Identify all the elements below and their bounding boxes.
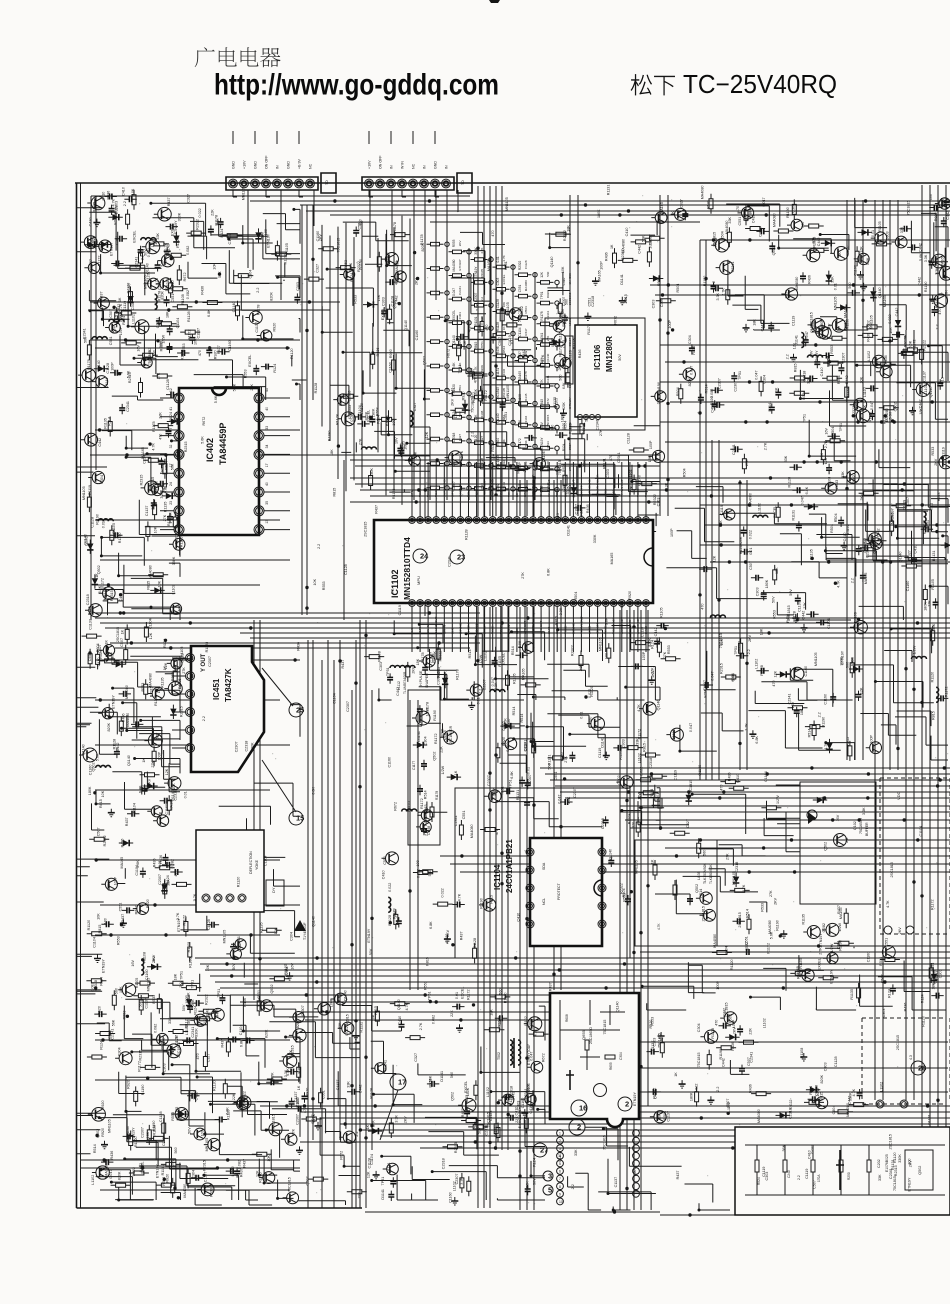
svg-text:0.082: 0.082 (91, 982, 95, 991)
svg-text:MA165: MA165 (610, 553, 614, 565)
svg-text:R2322: R2322 (518, 260, 522, 270)
svg-text:2.2: 2.2 (712, 281, 716, 286)
svg-text:170A: 170A (817, 1174, 821, 1182)
svg-text:R1120: R1120 (87, 920, 91, 931)
svg-text:C551: C551 (587, 298, 591, 307)
svg-text:R1178: R1178 (215, 215, 219, 226)
svg-text:ETN19Y: ETN19Y (102, 959, 106, 973)
svg-text:R1190: R1190 (924, 282, 928, 293)
svg-text:C442: C442 (522, 349, 526, 358)
svg-text:50V: 50V (171, 1159, 175, 1166)
svg-text:R437: R437 (524, 328, 528, 336)
svg-text:2KV: 2KV (934, 458, 938, 466)
svg-text:R1120: R1120 (474, 435, 478, 444)
svg-text:R1105: R1105 (178, 678, 182, 689)
svg-text:VIDEO DET: VIDEO DET (483, 480, 487, 497)
svg-text:DEFLECTION: DEFLECTION (249, 851, 253, 874)
svg-text:R672: R672 (541, 1053, 545, 1062)
svg-text:C303: C303 (660, 298, 664, 307)
svg-text:C1128: C1128 (207, 919, 211, 930)
svg-text:10K: 10K (101, 790, 105, 797)
svg-text:56K: 56K (719, 520, 723, 527)
svg-text:C1104: C1104 (264, 856, 268, 867)
svg-text:R1131: R1131 (516, 790, 520, 801)
svg-text:C410: C410 (89, 218, 93, 227)
svg-text:D1141: D1141 (105, 378, 109, 389)
svg-text:MA165: MA165 (518, 371, 522, 381)
svg-text:IN SOM: IN SOM (467, 623, 471, 634)
svg-text:12K: 12K (149, 632, 153, 639)
svg-text:EXCEL: EXCEL (502, 274, 506, 284)
svg-text:6.8K: 6.8K (444, 671, 448, 679)
svg-text:0.01: 0.01 (834, 283, 838, 290)
svg-text:H PULSE: H PULSE (419, 670, 423, 686)
svg-text:6.8K: 6.8K (562, 382, 566, 389)
svg-text:HSYNC: HSYNC (571, 622, 575, 634)
svg-text:10K: 10K (860, 376, 864, 383)
svg-text:R437: R437 (374, 505, 378, 514)
svg-text:R920: R920 (657, 277, 661, 286)
svg-text:C551: C551 (171, 294, 175, 303)
svg-text:Q1140: Q1140 (546, 353, 550, 362)
svg-text:R514: R514 (807, 729, 811, 738)
svg-text:Y OUT: Y OUT (201, 653, 207, 672)
svg-text:50V: 50V (789, 589, 793, 596)
svg-text:560: 560 (846, 246, 850, 252)
svg-text:IC1104: IC1104 (493, 864, 502, 890)
svg-text:MN1105: MN1105 (222, 930, 226, 944)
svg-text:TP51: TP51 (458, 365, 462, 374)
svg-text:50V: 50V (232, 963, 236, 970)
svg-text:27K: 27K (564, 756, 568, 763)
svg-text:C240: C240 (787, 1170, 791, 1178)
svg-text:2.2: 2.2 (93, 244, 97, 249)
svg-text:R1172: R1172 (467, 989, 471, 1000)
svg-text:5.6K: 5.6K (524, 440, 528, 446)
svg-text:R553: R553 (182, 343, 186, 352)
svg-text:L1102: L1102 (568, 317, 572, 325)
svg-text:C410: C410 (398, 1016, 402, 1025)
svg-text:6.8K: 6.8K (164, 485, 168, 493)
svg-text:C442: C442 (119, 593, 123, 602)
svg-text:5.6K: 5.6K (127, 284, 131, 292)
svg-text:Q502: Q502 (772, 246, 776, 255)
svg-text:C1137: C1137 (922, 371, 926, 382)
svg-text:C442: C442 (919, 399, 923, 408)
svg-text:27K: 27K (726, 853, 730, 860)
svg-text:R553: R553 (579, 507, 583, 516)
svg-text:2.2: 2.2 (850, 578, 854, 583)
svg-text:2.2: 2.2 (845, 838, 849, 843)
svg-text:470: 470 (701, 604, 705, 610)
svg-text:75C1815: 75C1815 (725, 1002, 729, 1017)
svg-text:C2318: C2318 (811, 321, 815, 332)
svg-text:+10V: +10V (243, 160, 247, 169)
svg-text:5.6K: 5.6K (866, 257, 870, 265)
svg-text:C1104: C1104 (764, 771, 768, 782)
svg-text:0.082: 0.082 (710, 389, 714, 398)
svg-text:18K: 18K (518, 419, 522, 426)
svg-text:470: 470 (196, 1053, 200, 1059)
svg-text:16V: 16V (637, 793, 641, 800)
svg-text:ETN19Y: ETN19Y (568, 397, 572, 408)
svg-text:4.7K: 4.7K (193, 893, 197, 901)
svg-text:C2341: C2341 (731, 262, 735, 273)
svg-text:22K: 22K (450, 1010, 454, 1017)
svg-text:330K: 330K (593, 534, 597, 543)
svg-text:C202: C202 (877, 1159, 881, 1168)
svg-text:C304: C304 (688, 335, 692, 344)
svg-text:RIN: RIN (523, 492, 527, 497)
svg-text:100: 100 (510, 338, 514, 344)
svg-text:C2307: C2307 (234, 741, 238, 752)
svg-text:C2318: C2318 (86, 594, 90, 605)
svg-text:25C1865O: 25C1865O (589, 1027, 593, 1044)
svg-text:R437: R437 (459, 931, 463, 940)
svg-text:4.7K: 4.7K (657, 923, 661, 930)
svg-text:R2322: R2322 (196, 219, 200, 230)
svg-text:R514: R514 (93, 1144, 97, 1153)
svg-text:Q502: Q502 (306, 1176, 310, 1185)
svg-text:75C1815: 75C1815 (287, 1177, 291, 1192)
svg-text:R1105: R1105 (513, 673, 517, 684)
svg-text:C442: C442 (238, 943, 242, 952)
svg-text:18K: 18K (648, 455, 652, 462)
svg-text:R1108: R1108 (386, 415, 390, 426)
svg-text:0.047: 0.047 (689, 723, 693, 732)
svg-text:6.8K: 6.8K (312, 786, 316, 794)
svg-text:3: 3 (559, 1147, 561, 1151)
svg-text:R1108: R1108 (546, 461, 550, 470)
svg-text:0.082: 0.082 (171, 859, 175, 868)
svg-text:R124: R124 (650, 789, 654, 798)
svg-text:R815: R815 (820, 1092, 824, 1101)
svg-text:TP51: TP51 (386, 667, 390, 676)
svg-text:R815: R815 (147, 581, 151, 590)
svg-text:18K: 18K (567, 225, 571, 232)
svg-text:820K: 820K (296, 1019, 300, 1028)
svg-text:TP51: TP51 (480, 341, 484, 349)
svg-text:R533: R533 (935, 971, 939, 980)
svg-text:470: 470 (938, 308, 942, 314)
svg-text:R2322: R2322 (243, 1091, 247, 1102)
svg-text:C327: C327 (458, 434, 462, 442)
svg-text:2.2: 2.2 (786, 354, 790, 359)
svg-text:GND: GND (287, 161, 291, 169)
svg-text:R1105: R1105 (799, 958, 803, 969)
svg-text:1K: 1K (120, 629, 124, 634)
svg-text:2.2: 2.2 (480, 297, 484, 302)
svg-text:12: 12 (169, 388, 173, 392)
svg-text:L1102: L1102 (172, 584, 176, 594)
svg-text:100: 100 (452, 461, 456, 467)
svg-text:100P: 100P (670, 528, 674, 537)
svg-text:R1190: R1190 (480, 898, 484, 909)
svg-text:27K: 27K (521, 572, 525, 579)
svg-text:27K: 27K (182, 667, 186, 674)
svg-text:75C1815: 75C1815 (689, 780, 693, 795)
svg-text:R672: R672 (183, 272, 187, 281)
svg-text:50V: 50V (188, 1127, 192, 1134)
svg-text:330K: 330K (474, 246, 478, 254)
svg-text:ETN19Y: ETN19Y (657, 381, 661, 395)
svg-text:R504: R504 (831, 427, 835, 436)
svg-text:R124: R124 (651, 640, 655, 649)
svg-text:C2341: C2341 (206, 1008, 210, 1019)
svg-text:R1178: R1178 (393, 222, 397, 233)
svg-text:C507: C507 (120, 638, 124, 647)
svg-text:C1128: C1128 (91, 517, 95, 528)
svg-text:R124: R124 (802, 391, 806, 400)
svg-text:R1131: R1131 (161, 1165, 165, 1176)
svg-text:C507: C507 (749, 561, 753, 570)
svg-text:Q1140: Q1140 (878, 287, 882, 298)
svg-text:25: 25 (296, 706, 304, 715)
svg-text:C410: C410 (736, 774, 740, 783)
svg-text:AFC DET: AFC DET (539, 621, 543, 634)
svg-text:2: 2 (625, 1100, 629, 1109)
svg-text:R553: R553 (141, 683, 145, 692)
svg-text:Q1140: Q1140 (496, 413, 500, 423)
svg-text:R920: R920 (305, 1088, 309, 1097)
svg-text:560: 560 (428, 870, 432, 876)
svg-text:R437: R437 (100, 291, 104, 300)
svg-text:2.7K: 2.7K (460, 450, 464, 458)
svg-text:R815: R815 (426, 957, 430, 966)
svg-text:0.022: 0.022 (811, 1144, 815, 1153)
svg-text:VSSC: VSSC (604, 625, 608, 634)
svg-text:C2307: C2307 (759, 226, 763, 237)
svg-text:R124: R124 (517, 465, 521, 474)
svg-text:R514: R514 (468, 649, 472, 658)
svg-text:R920: R920 (856, 620, 860, 629)
svg-text:R815: R815 (556, 513, 560, 522)
svg-text:0.047: 0.047 (558, 795, 562, 804)
svg-text:R436: R436 (201, 286, 205, 295)
svg-text:COLOR KILLER: COLOR KILLER (596, 474, 600, 497)
svg-text:Q1140: Q1140 (343, 990, 347, 1001)
svg-text:56K: 56K (641, 235, 645, 242)
svg-text:L1102: L1102 (540, 462, 544, 471)
svg-text:18K: 18K (489, 1009, 493, 1016)
svg-text:R436: R436 (121, 839, 125, 848)
svg-text:2KV: 2KV (898, 927, 902, 935)
svg-text:12K: 12K (860, 687, 864, 694)
svg-text:560: 560 (548, 763, 552, 769)
svg-text:C410: C410 (913, 545, 917, 554)
svg-text:C1104: C1104 (176, 318, 180, 329)
svg-text:R437: R437 (125, 817, 129, 826)
svg-text:C2307: C2307 (110, 653, 114, 664)
svg-text:MN1105: MN1105 (146, 978, 150, 992)
svg-text:C2307: C2307 (487, 775, 491, 786)
svg-text:10K: 10K (474, 414, 478, 421)
svg-text:KOSC2: KOSC2 (475, 623, 479, 634)
svg-text:16V: 16V (809, 350, 813, 357)
svg-text:R1128: R1128 (787, 477, 791, 488)
svg-text:180K: 180K (561, 413, 565, 422)
svg-text:R533: R533 (707, 200, 711, 209)
svg-text:C2341: C2341 (788, 694, 792, 705)
svg-text:56K: 56K (162, 1038, 166, 1045)
svg-text:C2341: C2341 (134, 257, 138, 268)
svg-text:R1128: R1128 (568, 423, 572, 434)
svg-text:W IN: W IN (401, 161, 405, 169)
svg-text:TP51: TP51 (500, 786, 504, 795)
svg-text:0.082: 0.082 (154, 1024, 158, 1033)
svg-text:R436: R436 (692, 346, 696, 355)
svg-text:3.3K: 3.3K (559, 607, 563, 615)
svg-text:C1128: C1128 (344, 564, 348, 575)
svg-text:R1172: R1172 (766, 943, 770, 954)
svg-text:R1105: R1105 (660, 607, 664, 618)
svg-text:C2307: C2307 (295, 1114, 299, 1125)
svg-text:SIF1: SIF1 (450, 490, 454, 497)
svg-text:22K: 22K (250, 383, 254, 390)
svg-text:27K: 27K (394, 910, 398, 917)
svg-text:R1120: R1120 (360, 403, 364, 414)
svg-text:C303: C303 (296, 282, 300, 291)
svg-text:R1108: R1108 (180, 647, 184, 658)
svg-text:6: 6 (559, 1170, 561, 1174)
svg-text:GND: GND (434, 161, 438, 169)
svg-text:0.047: 0.047 (762, 197, 766, 206)
svg-text:560: 560 (551, 425, 555, 431)
svg-text:C304: C304 (131, 301, 135, 310)
svg-text:R553: R553 (171, 1112, 175, 1121)
svg-text:330K: 330K (172, 556, 176, 565)
svg-text:VSSC: VSSC (426, 488, 430, 497)
svg-text:R514: R514 (699, 889, 703, 898)
svg-text:R436: R436 (110, 1151, 114, 1160)
svg-text:0.022: 0.022 (639, 767, 643, 776)
svg-text:C2307: C2307 (141, 1127, 145, 1138)
svg-text:2.2: 2.2 (531, 436, 535, 441)
svg-text:4.7K: 4.7K (458, 893, 462, 901)
svg-text:820K: 820K (107, 722, 111, 731)
svg-text:D1141: D1141 (440, 1071, 444, 1082)
svg-text:R514: R514 (512, 707, 516, 716)
svg-text:VOSC: VOSC (434, 487, 438, 497)
svg-text:Q1140: Q1140 (929, 386, 933, 397)
svg-text:R553: R553 (931, 963, 935, 972)
svg-text:C1137: C1137 (430, 652, 434, 663)
svg-text:R815: R815 (794, 363, 798, 372)
svg-text:N LINE OUT: N LINE OUT (434, 617, 438, 634)
svg-text:TP51: TP51 (540, 291, 544, 299)
svg-text:C327: C327 (414, 1053, 418, 1062)
svg-text:R553: R553 (458, 385, 462, 393)
svg-text:ON OFF: ON OFF (379, 155, 383, 169)
svg-text:33K: 33K (728, 216, 732, 223)
svg-text:R437: R437 (215, 1008, 219, 1017)
svg-text:18K: 18K (620, 601, 624, 608)
svg-text:1K: 1K (863, 405, 867, 410)
svg-text:C327: C327 (680, 199, 684, 208)
svg-text:3.3K: 3.3K (862, 807, 866, 815)
svg-text:R553: R553 (937, 492, 941, 501)
svg-text:560: 560 (589, 717, 593, 723)
svg-text:C1137: C1137 (89, 619, 93, 630)
svg-text:VCR1: VCR1 (475, 488, 479, 497)
svg-text:R1120: R1120 (213, 1080, 217, 1091)
svg-text:C1137: C1137 (89, 259, 93, 270)
svg-text:R504: R504 (676, 284, 680, 293)
svg-text:2SC1815GR: 2SC1815GR (449, 725, 453, 744)
svg-text:470: 470 (609, 455, 613, 461)
svg-text:R436: R436 (850, 657, 854, 666)
svg-text:NC: NC (309, 163, 313, 169)
svg-text:C442: C442 (721, 1058, 725, 1067)
svg-text:C1128: C1128 (792, 611, 796, 622)
svg-text:TP51: TP51 (428, 991, 432, 1000)
svg-text:C551: C551 (738, 217, 742, 226)
svg-text:MA165: MA165 (864, 573, 868, 585)
svg-text:SIF1: SIF1 (410, 490, 414, 497)
svg-text:33K: 33K (574, 1149, 578, 1156)
svg-text:R920: R920 (97, 1006, 101, 1015)
svg-text:16V: 16V (524, 486, 528, 491)
svg-text:BALANCE: BALANCE (628, 620, 632, 634)
svg-text:R437: R437 (243, 1159, 247, 1168)
svg-text:2.7K: 2.7K (745, 723, 749, 731)
svg-text:MN1105: MN1105 (814, 652, 818, 666)
svg-text:6.8K: 6.8K (207, 309, 211, 317)
svg-text:MN1280R: MN1280R (605, 336, 614, 372)
svg-text:NCL: NCL (542, 898, 546, 905)
svg-text:COLOR KILLER: COLOR KILLER (531, 474, 535, 497)
svg-text:12K: 12K (774, 670, 778, 677)
svg-text:MN1105: MN1105 (82, 486, 86, 500)
svg-text:1/2W: 1/2W (441, 765, 445, 774)
svg-text:TP51: TP51 (738, 371, 742, 380)
svg-text:C2318: C2318 (789, 1108, 793, 1119)
svg-text:22K: 22K (803, 602, 807, 609)
svg-text:0.047: 0.047 (870, 401, 874, 410)
svg-text:50V: 50V (492, 453, 496, 460)
svg-text:C1104: C1104 (133, 803, 137, 814)
svg-text:ETN19Y: ETN19Y (841, 650, 845, 664)
svg-text:R815: R815 (474, 342, 478, 350)
svg-text:C551: C551 (504, 412, 508, 421)
svg-text:R1135: R1135 (392, 489, 396, 500)
svg-text:EXCEL: EXCEL (452, 310, 456, 321)
svg-text:330K: 330K (195, 1028, 199, 1037)
svg-text:D1141: D1141 (738, 641, 742, 652)
svg-text:R436: R436 (578, 349, 582, 358)
svg-text:6.8K: 6.8K (225, 1107, 229, 1115)
svg-text:5.6K: 5.6K (585, 414, 589, 422)
svg-text:R436: R436 (159, 855, 163, 864)
svg-text:0.022: 0.022 (198, 208, 202, 217)
svg-text:MA165: MA165 (120, 857, 124, 869)
svg-text:MA165: MA165 (941, 255, 945, 267)
svg-text:C1104: C1104 (919, 826, 923, 837)
svg-text:BLK: BLK (410, 627, 414, 634)
svg-text:1K: 1K (163, 665, 167, 670)
svg-text:C551: C551 (504, 261, 508, 270)
svg-text:33K: 33K (338, 1022, 342, 1029)
svg-text:18K: 18K (752, 319, 756, 326)
svg-text:18K: 18K (800, 708, 804, 715)
svg-text:R1135: R1135 (582, 424, 586, 435)
svg-text:1K: 1K (463, 340, 467, 345)
svg-text:R1135: R1135 (524, 393, 528, 402)
svg-text:R250: R250 (847, 1172, 851, 1180)
svg-text:C1137: C1137 (255, 322, 259, 333)
svg-text:12K: 12K (824, 457, 828, 464)
svg-text:C551: C551 (518, 284, 522, 292)
